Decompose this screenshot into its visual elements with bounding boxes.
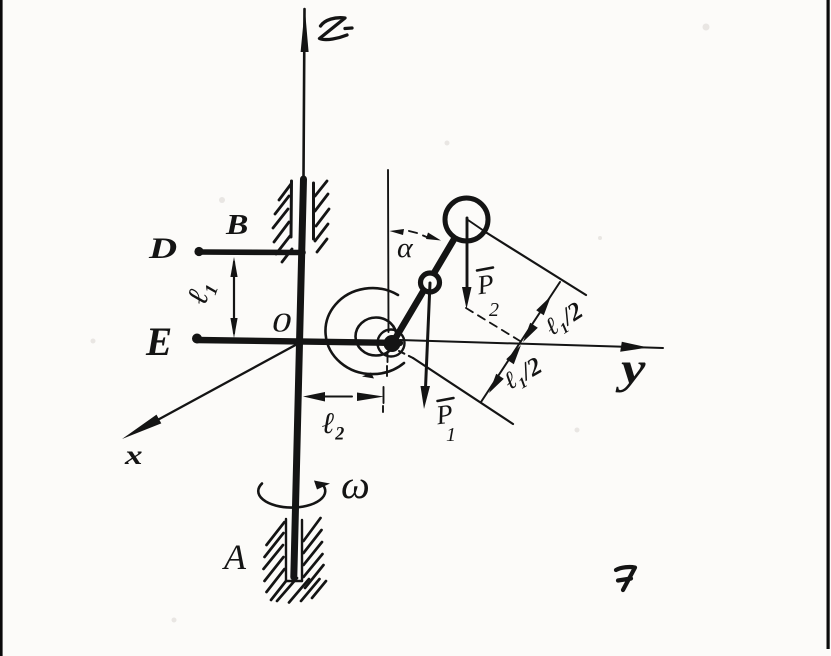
svg-text:0: 0: [272, 308, 292, 338]
bottom bearing slot bottom: [286, 580, 302, 582]
y-axis line: [400, 340, 663, 348]
svg-text:x: x: [124, 440, 143, 470]
svg-text:α: α: [397, 232, 413, 264]
svg-text:y: y: [615, 344, 646, 393]
svg-text:ℓ₁: ℓ₁: [181, 275, 220, 308]
spiral inner loop: [378, 330, 405, 357]
vertical reference line (alpha datum): [387, 170, 390, 332]
ball (large circle): [445, 198, 488, 241]
z label: [320, 18, 353, 40]
y-axis arrowhead: [620, 342, 648, 352]
bottom bearing slot left wall: [285, 519, 287, 581]
dim arrow up-right at crossing (lower): [506, 345, 521, 364]
member BD horizontal bar: [199, 249, 303, 255]
omega arrowhead: [314, 481, 330, 490]
faint scan smudges: [91, 24, 710, 623]
spiral arrow tick: [362, 373, 374, 379]
svg-text:ω: ω: [341, 462, 370, 507]
svg-text:B: B: [225, 209, 248, 241]
page number 7: [616, 567, 635, 590]
x-axis line: [152, 342, 301, 423]
svg-text:P: P: [474, 268, 496, 300]
force P1 line: [426, 283, 431, 388]
bottom bearing slot right wall: [301, 520, 303, 581]
z-axis arrowhead: [301, 8, 309, 52]
scan edge bar right: [827, 0, 830, 649]
force P1 arrowhead: [421, 386, 431, 409]
dimension l1 line: [233, 262, 235, 333]
svg-text:E: E: [145, 320, 172, 364]
bottom bearing hatching below: [277, 578, 326, 603]
pivot blob at O': [384, 335, 401, 352]
dashed projection P2 to dimension crossing: [466, 308, 520, 341]
dimension l2 arrow right: [357, 393, 384, 402]
small joint circle: [421, 273, 440, 292]
scan edge bar left: [0, 0, 3, 656]
svg-text:ℓ₂: ℓ₂: [322, 407, 345, 440]
top bearing left wall: [290, 181, 294, 237]
dimension line l1/2 (upper and lower): [481, 282, 560, 402]
point E dot: [192, 334, 202, 344]
omega rotation arc: [258, 484, 325, 508]
alpha arc arrow right: [426, 233, 441, 241]
spiral spring outer loop: [325, 288, 404, 374]
top bearing hatching left: [273, 184, 292, 262]
svg-text:A: A: [222, 537, 247, 577]
label P1: [433, 398, 456, 446]
svg-text:D: D: [148, 231, 177, 265]
alpha arc dashes: [409, 231, 429, 238]
vertical reference dashes below center: [383, 352, 388, 412]
svg-text:1: 1: [446, 424, 456, 446]
bottom bearing hatching left: [264, 522, 287, 600]
label P2: [474, 268, 499, 322]
dim arrow down-left at crossing (upper): [523, 323, 538, 342]
top bearing right wall: [312, 183, 315, 239]
radial line inside ball: [468, 220, 487, 233]
dimension l1 arrow up: [230, 257, 237, 277]
spiral middle loop: [356, 318, 397, 356]
lower boundary line from O: [399, 351, 413, 358]
force P2 arrowhead: [462, 287, 472, 309]
dimension l2 arrow left: [303, 392, 325, 402]
bottom bearing hatching right: [304, 518, 324, 588]
member EO horizontal bar: [197, 340, 400, 343]
pendulum rod: [392, 219, 466, 344]
upper boundary line from ball: [487, 233, 586, 295]
dimension l1 arrow down: [230, 318, 237, 338]
dimension l2 line: [322, 396, 352, 398]
top bearing hatching right: [315, 181, 329, 252]
point D dot: [194, 247, 203, 256]
z-axis line: [304, 9, 305, 178]
force P2 line: [466, 218, 469, 290]
svg-text:ℓ₁/2: ℓ₁/2: [500, 352, 547, 395]
x-axis arrowhead: [122, 415, 161, 439]
main vertical shaft: [294, 179, 304, 577]
alpha arc arrow left: [390, 229, 405, 235]
dim arrow up-right near top: [536, 296, 551, 315]
svg-text:2: 2: [489, 299, 499, 321]
dim arrow down-left near bottom: [489, 374, 504, 393]
